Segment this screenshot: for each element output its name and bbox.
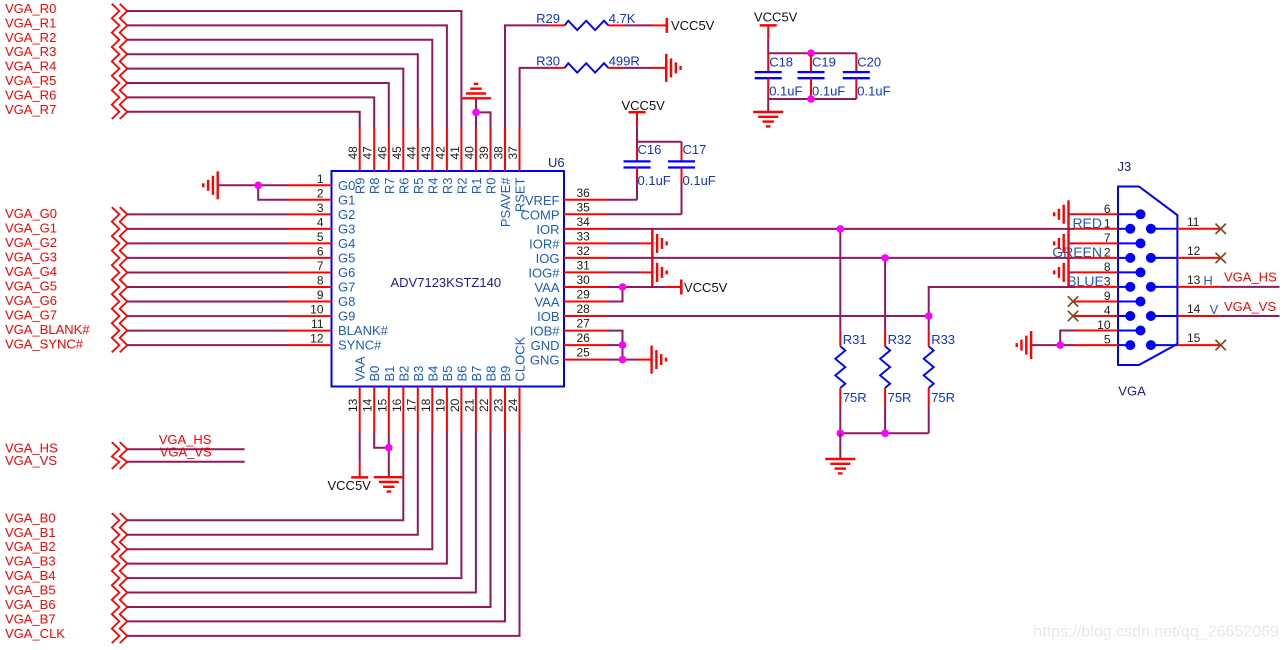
svg-text:5: 5 <box>1104 333 1111 347</box>
sheet entry chevrons VGA_B0-B7 CLK <box>112 513 120 643</box>
ground under U6 pins14/15 <box>374 477 404 491</box>
svg-text:7: 7 <box>317 259 324 273</box>
svg-text:26: 26 <box>577 331 591 345</box>
wire VGA_B2 to U6 pin 18 <box>127 433 432 549</box>
U6 pin numbers 36-25 (right) <box>577 186 591 360</box>
svg-text:38: 38 <box>492 146 506 160</box>
svg-text:13: 13 <box>1187 273 1201 287</box>
wire VGA_BLANK# to U6 pin 11 <box>127 330 288 332</box>
wire VGA_VS stub <box>127 461 244 463</box>
svg-text:B6: B6 <box>454 366 469 382</box>
wire U6 pin27 IOB# to ground net <box>608 331 623 360</box>
wire U6 pin2 G1 joins pin1 net <box>258 185 288 200</box>
svg-text:B4: B4 <box>425 366 440 382</box>
svg-text:ADV7123KSTZ140: ADV7123KSTZ140 <box>391 275 502 290</box>
wire U6 pin 37 RSET to R30 <box>520 68 550 128</box>
svg-text:40: 40 <box>462 146 476 160</box>
U6 left pin stubs 1-12 <box>288 185 332 345</box>
resistor R31 bottom stub <box>839 388 841 405</box>
wire VGA_B7 to U6 pin 23 <box>127 433 505 621</box>
svg-text:J3: J3 <box>1118 159 1132 174</box>
power VCC5V above C18 <box>760 24 777 27</box>
svg-text:VCC5V: VCC5V <box>671 18 715 33</box>
svg-text:0.1uF: 0.1uF <box>812 84 845 99</box>
wire U6 pin31 IOG# to ground <box>608 271 640 273</box>
svg-text:G2: G2 <box>338 207 355 222</box>
svg-text:VGA_B6: VGA_B6 <box>5 597 56 612</box>
wire J3 pin8 to ground <box>1069 271 1075 273</box>
svg-text:75R: 75R <box>888 390 912 405</box>
svg-text:VCC5V: VCC5V <box>754 9 798 24</box>
svg-text:SYNC#: SYNC# <box>338 338 382 353</box>
svg-text:R1: R1 <box>469 178 484 195</box>
svg-text:G4: G4 <box>338 236 355 251</box>
wire R31 top connection <box>839 229 841 331</box>
wire C18/C19/C20 top rail <box>768 52 856 54</box>
wire VGA_G7 to U6 pin 10 <box>127 315 288 317</box>
ground J3 pin7 <box>1054 229 1068 257</box>
wire VCC5V to C16 <box>636 126 638 147</box>
junction GND25 <box>619 356 627 364</box>
capacitor C18 bottom stub <box>767 78 769 99</box>
sheet entry chevrons VGA_R0-R7 <box>112 4 120 119</box>
capacitor C19 top stub <box>810 53 812 72</box>
wire VGA_G4 to U6 pin 7 <box>127 272 288 274</box>
svg-text:B3: B3 <box>411 366 426 382</box>
svg-text:R29: R29 <box>536 11 560 26</box>
junction R33 tap <box>925 312 933 320</box>
svg-text:9: 9 <box>1104 289 1111 303</box>
svg-text:G3: G3 <box>338 221 355 236</box>
svg-text:46: 46 <box>375 146 389 160</box>
resistor R33 bottom stub <box>928 388 930 405</box>
svg-text:43: 43 <box>419 146 433 160</box>
svg-text:VGA_R6: VGA_R6 <box>5 87 56 102</box>
ground under R31 <box>825 459 855 473</box>
svg-text:VGA_B5: VGA_B5 <box>5 583 56 598</box>
junction VAA <box>619 283 627 291</box>
svg-text:31: 31 <box>577 258 591 272</box>
wire rail to ground <box>839 433 841 459</box>
svg-text:R4: R4 <box>425 178 440 195</box>
no-connect X J3 pin12 <box>1216 253 1226 263</box>
svg-text:VGA_B2: VGA_B2 <box>5 539 56 554</box>
connector J3 left pin numbers 6,1,7,2,8,3,9,4,10,5 <box>1097 202 1111 347</box>
svg-text:10: 10 <box>1097 318 1111 332</box>
svg-text:R33: R33 <box>931 332 955 347</box>
svg-text:23: 23 <box>492 398 506 412</box>
wire VGA_B5 to U6 pin 21 <box>127 433 476 593</box>
svg-text:BLANK#: BLANK# <box>338 323 389 338</box>
wire U6 pin25 GNG to ground <box>608 359 639 361</box>
U6 bottom pin stubs 13-24 <box>360 387 520 434</box>
capacitor C17 bottom stub <box>681 168 683 182</box>
wire U6 pin33 IOR# to ground <box>608 242 640 244</box>
capacitor C20 bottom stub <box>855 78 857 99</box>
wire C16 top to C17 top <box>637 141 682 143</box>
U6 top pin names R9-R0 PSAVE# RSET <box>353 177 528 227</box>
svg-text:4: 4 <box>1104 304 1111 318</box>
capacitor C16 bottom stub <box>636 168 638 182</box>
svg-text:R32: R32 <box>888 332 912 347</box>
svg-text:15: 15 <box>1187 331 1201 345</box>
resistor R30 body <box>565 63 609 72</box>
svg-text:4: 4 <box>317 215 324 229</box>
connector J3 left pin stubs <box>1075 214 1119 345</box>
svg-text:VAA: VAA <box>534 295 559 310</box>
svg-text:G6: G6 <box>338 265 355 280</box>
resistor R29 pin stubs <box>549 24 564 26</box>
ground J3 pin5 <box>1017 331 1031 359</box>
svg-text:45: 45 <box>390 146 404 160</box>
resistor R33 body <box>924 346 934 388</box>
svg-text:C17: C17 <box>683 142 707 157</box>
svg-text:RSET: RSET <box>513 177 528 212</box>
svg-text:R6: R6 <box>396 178 411 195</box>
wire VGA_G3 to U6 pin 6 <box>127 257 288 259</box>
svg-text:0.1uF: 0.1uF <box>638 173 671 188</box>
resistor R33 top stub <box>928 331 930 347</box>
svg-text:14: 14 <box>361 398 375 412</box>
svg-text:VGA_B7: VGA_B7 <box>5 611 56 626</box>
svg-text:29: 29 <box>577 288 591 302</box>
svg-text:VGA_R5: VGA_R5 <box>5 73 56 88</box>
svg-text:15: 15 <box>375 398 389 412</box>
junction GND26 <box>619 341 627 349</box>
wire VGA_B0 to U6 pin 16 <box>127 433 403 520</box>
svg-text:VGA_B0: VGA_B0 <box>5 510 56 525</box>
svg-text:VGA_R1: VGA_R1 <box>5 15 56 30</box>
svg-text:U6: U6 <box>548 155 565 170</box>
wire U6 pin36 VREF to C16 <box>608 199 638 201</box>
wire U6 pin35 COMP to C17 <box>608 213 682 215</box>
power VCC5V above C16 <box>629 111 646 114</box>
ground GND/GNG pins <box>652 346 666 374</box>
capacitor C16 plates <box>624 161 651 167</box>
resistor R29 body <box>565 21 609 30</box>
ground G0/G1 <box>203 171 217 199</box>
svg-text:0.1uF: 0.1uF <box>683 173 716 188</box>
svg-text:11: 11 <box>311 317 324 331</box>
wire R33 top connection <box>928 316 930 331</box>
svg-text:11: 11 <box>1187 215 1200 229</box>
svg-text:41: 41 <box>448 146 462 160</box>
svg-text:35: 35 <box>577 200 591 214</box>
svg-text:VGA_VS: VGA_VS <box>5 453 57 468</box>
wire VCC5V to C18 rail <box>767 40 769 53</box>
power VCC5V near U6 pin30 <box>680 280 683 295</box>
capacitor C18 plates <box>755 72 782 78</box>
wire U6 pin26 GND <box>608 344 623 346</box>
svg-text:75R: 75R <box>931 390 955 405</box>
wire R32 top connection <box>884 258 886 331</box>
svg-text:VGA_B1: VGA_B1 <box>5 525 56 540</box>
svg-text:PSAVE#: PSAVE# <box>498 177 513 227</box>
svg-text:VGA_B4: VGA_B4 <box>5 568 56 583</box>
wire VGA_R6 to U6 pin 47 <box>127 97 374 128</box>
svg-text:VGA_SYNC#: VGA_SYNC# <box>5 337 84 352</box>
junction R0/R1 gnd <box>472 109 480 117</box>
svg-text:8: 8 <box>317 274 324 288</box>
svg-text:R3: R3 <box>440 178 455 195</box>
junction C19 bottom <box>807 95 815 103</box>
wire VGA_HS stub <box>127 448 244 450</box>
wire VGA_R5 to U6 pin 46 <box>127 83 389 128</box>
U6 left pin names G0-G9 BLANK# SYNC# <box>338 178 389 353</box>
svg-text:VGA_G2: VGA_G2 <box>5 235 57 250</box>
connector J3 body <box>1118 187 1177 366</box>
wire VGA_CLK to U6 pin 24 <box>127 433 519 636</box>
svg-text:VAA: VAA <box>534 280 559 295</box>
svg-text:47: 47 <box>361 146 375 160</box>
svg-text:C20: C20 <box>857 55 881 70</box>
wire J3 pin5 to ground <box>1031 344 1074 346</box>
svg-text:R0: R0 <box>484 178 499 195</box>
svg-text:4.7K: 4.7K <box>609 11 636 26</box>
U6 top pin stubs 48-37 <box>360 128 520 172</box>
U6 right pin names VREF..GNG <box>521 193 561 368</box>
wire IOR net (U6 pin34 to J3 pin1 RED) <box>608 228 1075 230</box>
ground top R0/R1 <box>461 84 491 98</box>
wire J3 pin6 to ground <box>1069 213 1075 215</box>
capacitor C19 bottom stub <box>810 78 812 99</box>
svg-text:18: 18 <box>419 398 433 412</box>
svg-text:B2: B2 <box>396 366 411 382</box>
connector J3 internal pins (blue) <box>1118 209 1177 350</box>
wire C18/C19/C20 bottom rail <box>768 98 856 100</box>
wire R31/R32/R33 bottom rail <box>840 432 928 434</box>
svg-text:GNG: GNG <box>530 353 560 368</box>
svg-text:2: 2 <box>317 186 324 200</box>
svg-text:VGA_R7: VGA_R7 <box>5 102 56 117</box>
svg-text:VGA_CLK: VGA_CLK <box>5 626 65 641</box>
svg-text:10: 10 <box>310 303 324 317</box>
capacitor C17 plates <box>668 161 695 167</box>
resistor R32 top stub <box>884 331 886 347</box>
svg-text:R5: R5 <box>411 178 426 195</box>
power VCC5V above C18 red stub <box>767 25 769 39</box>
svg-text:C18: C18 <box>769 55 793 70</box>
svg-text:G8: G8 <box>338 294 355 309</box>
wire IOB net (U6 pin28 to J3 pin3 BLUE) <box>608 287 1075 316</box>
wire VGA_G2 to U6 pin 5 <box>127 242 288 244</box>
svg-text:VREF: VREF <box>525 193 560 208</box>
connector J3 right pin numbers 11-15 <box>1187 215 1201 345</box>
svg-text:VGA_R0: VGA_R0 <box>5 1 56 16</box>
wire VGA_R0 to U6 pin 41 <box>127 11 461 128</box>
svg-text:IOG#: IOG# <box>528 265 560 280</box>
svg-text:VGA_G5: VGA_G5 <box>5 279 57 294</box>
svg-text:44: 44 <box>404 146 418 160</box>
U6 right pin stubs 36-25 <box>564 200 608 360</box>
wire U6 pin29 VAA joins pin30 net <box>608 287 623 302</box>
svg-text:GND: GND <box>531 338 560 353</box>
U6 pin numbers 13-24 (bottom) <box>346 398 520 412</box>
svg-text:H: H <box>1203 273 1212 288</box>
svg-text:14: 14 <box>1187 302 1201 316</box>
svg-text:48: 48 <box>346 146 360 160</box>
sheet entry chevrons VGA_G0-G7 BLANK SYNC <box>112 207 120 352</box>
svg-text:VGA_G4: VGA_G4 <box>5 264 57 279</box>
svg-text:VGA_G6: VGA_G6 <box>5 293 57 308</box>
svg-text:https://blog.csdn.net/qq_26652: https://blog.csdn.net/qq_26652069 <box>1033 624 1279 641</box>
wire R29 to VCC5V <box>623 24 652 26</box>
op-amp U6 ADV7123KSTZ140 body <box>332 171 565 387</box>
wire U6 pin30 VAA to VCC5V <box>608 286 666 288</box>
wire VGA_R7 to U6 pin 48 <box>127 112 360 128</box>
svg-text:IOR#: IOR# <box>529 236 560 251</box>
svg-text:VGA_G3: VGA_G3 <box>5 249 57 264</box>
svg-text:VGA_BLANK#: VGA_BLANK# <box>5 322 90 337</box>
svg-text:9: 9 <box>317 288 324 302</box>
svg-text:12: 12 <box>310 332 324 346</box>
wire C18 rail to ground <box>767 99 769 112</box>
svg-text:24: 24 <box>506 398 520 412</box>
svg-text:1: 1 <box>1104 216 1111 230</box>
svg-text:C16: C16 <box>638 142 662 157</box>
resistor R32 bottom stub <box>884 388 886 405</box>
svg-text:R8: R8 <box>367 178 382 195</box>
svg-text:8: 8 <box>1104 260 1111 274</box>
no-connect X J3 pin11 <box>1216 224 1226 234</box>
power VCC5V under U6 pin13 <box>351 476 368 479</box>
junction B0/B1 gnd <box>385 444 393 452</box>
svg-text:27: 27 <box>577 317 591 331</box>
svg-text:B9: B9 <box>498 366 513 382</box>
svg-text:3: 3 <box>1104 274 1111 288</box>
ground under C18 <box>753 112 783 126</box>
wire C16 to U6 pin36 <box>636 182 638 200</box>
capacitor C18 top stub <box>767 53 769 72</box>
junction rail R31 <box>837 430 845 438</box>
svg-text:42: 42 <box>433 146 447 160</box>
svg-text:5: 5 <box>317 230 324 244</box>
svg-text:CLOCK: CLOCK <box>513 336 528 381</box>
resistor R31 body <box>835 346 845 388</box>
wire VGA_B6 to U6 pin 22 <box>127 433 490 607</box>
wire U6 pin13 VAA to VCC5V <box>359 433 361 462</box>
wire VGA_R1 to U6 pin 42 <box>127 25 447 128</box>
U6 pin numbers 48-37 (top) <box>346 146 520 160</box>
wire R33 to bottom rail <box>928 405 930 434</box>
wire R32 to bottom rail <box>884 405 886 434</box>
svg-text:16: 16 <box>390 398 404 412</box>
wire VGA_G1 to U6 pin 4 <box>127 228 288 230</box>
wire VGA_G0 to U6 pin 3 <box>127 213 288 215</box>
wire VGA_G6 to U6 pin 9 <box>127 301 288 303</box>
svg-text:IOR: IOR <box>536 222 559 237</box>
svg-text:VGA_VS: VGA_VS <box>1224 299 1276 314</box>
U6 bottom pin names VAA B0-B9 CLOCK <box>353 336 528 381</box>
resistor R32 body <box>880 346 890 388</box>
capacitor C20 top stub <box>855 53 857 72</box>
connector J3 right pin stubs <box>1177 229 1220 345</box>
wire VGA_SYNC# to U6 pin 12 <box>127 344 288 346</box>
svg-text:3: 3 <box>317 201 324 215</box>
svg-text:0.1uF: 0.1uF <box>857 84 890 99</box>
ground J3 pin6 <box>1054 200 1068 228</box>
svg-text:VCC5V: VCC5V <box>328 478 372 493</box>
svg-text:R7: R7 <box>382 178 397 195</box>
svg-text:12: 12 <box>1187 244 1201 258</box>
svg-text:R31: R31 <box>843 332 867 347</box>
no-connect X J3 pin15 <box>1216 340 1226 350</box>
junction R31 tap <box>837 225 845 233</box>
wire U6 pin14 B0 to ground net <box>374 433 389 448</box>
wire VGA_HS from J3 pin13 <box>1220 286 1279 288</box>
svg-text:R9: R9 <box>353 178 368 195</box>
junction R32 tap <box>881 254 889 262</box>
svg-text:VGA_R4: VGA_R4 <box>5 59 56 74</box>
svg-text:25: 25 <box>577 346 591 360</box>
svg-text:G5: G5 <box>338 250 355 265</box>
svg-text:G7: G7 <box>338 280 355 295</box>
wire R30 to ground <box>623 67 651 69</box>
svg-text:B0: B0 <box>367 366 382 382</box>
svg-text:R2: R2 <box>454 178 469 195</box>
svg-text:VAA: VAA <box>353 356 368 381</box>
wire C17 drop <box>681 142 683 148</box>
wire J3 pin10 joins pin5 net <box>1060 331 1074 346</box>
wire U6 pin 39 (R0) to pin40 net <box>476 112 491 128</box>
svg-text:1: 1 <box>317 172 324 186</box>
wire VGA_B4 to U6 pin 20 <box>127 433 461 578</box>
svg-text:IOG: IOG <box>536 251 560 266</box>
svg-text:VGA_R3: VGA_R3 <box>5 44 56 59</box>
svg-text:22: 22 <box>477 398 491 412</box>
svg-text:37: 37 <box>506 146 520 160</box>
svg-text:R30: R30 <box>536 53 560 68</box>
svg-text:VGA_R2: VGA_R2 <box>5 30 56 45</box>
svg-text:30: 30 <box>577 273 591 287</box>
wire IOG net (U6 pin32 to J3 pin2 GREEN) <box>608 257 1075 259</box>
no-connect X J3 pin9 <box>1068 296 1078 306</box>
ground near R30 <box>666 54 680 82</box>
svg-text:VGA_G0: VGA_G0 <box>5 206 57 221</box>
svg-text:IOB: IOB <box>537 309 559 324</box>
wire VGA_B3 to U6 pin 19 <box>127 433 447 564</box>
junction rail R32 <box>881 430 889 438</box>
svg-text:6: 6 <box>1104 202 1111 216</box>
ground J3 pin8 <box>1054 258 1068 286</box>
svg-text:VGA_HS: VGA_HS <box>1224 270 1277 285</box>
wire U6 pin 40 (R1) to ground <box>475 98 477 128</box>
svg-text:39: 39 <box>477 146 491 160</box>
wire J3 pin7 to ground <box>1069 242 1075 244</box>
svg-text:B1: B1 <box>382 366 397 382</box>
svg-text:36: 36 <box>577 186 591 200</box>
svg-text:VGA: VGA <box>1118 384 1146 399</box>
wire C17 to U6 pin35 <box>681 182 683 215</box>
junction C19 top <box>807 49 815 57</box>
sheet entry chevrons VGA_HS VGA_VS <box>112 442 120 469</box>
svg-text:IOB#: IOB# <box>530 324 560 339</box>
svg-text:75R: 75R <box>843 390 867 405</box>
power VCC5V above C16 red stub <box>636 112 638 126</box>
capacitor C19 plates <box>798 72 825 78</box>
wire U6 pin1 G0 to ground <box>218 184 288 186</box>
wire U6 pin15 B1 to ground <box>388 433 390 477</box>
svg-text:499R: 499R <box>609 53 640 68</box>
wire R31 to bottom rail <box>839 405 841 434</box>
svg-text:BLUE: BLUE <box>1067 273 1104 289</box>
svg-text:19: 19 <box>433 398 447 412</box>
wire VGA_VS from J3 pin14 <box>1220 315 1279 317</box>
svg-text:7: 7 <box>1104 231 1111 245</box>
svg-text:G9: G9 <box>338 309 355 324</box>
svg-text:C19: C19 <box>812 55 836 70</box>
svg-text:B8: B8 <box>484 366 499 382</box>
